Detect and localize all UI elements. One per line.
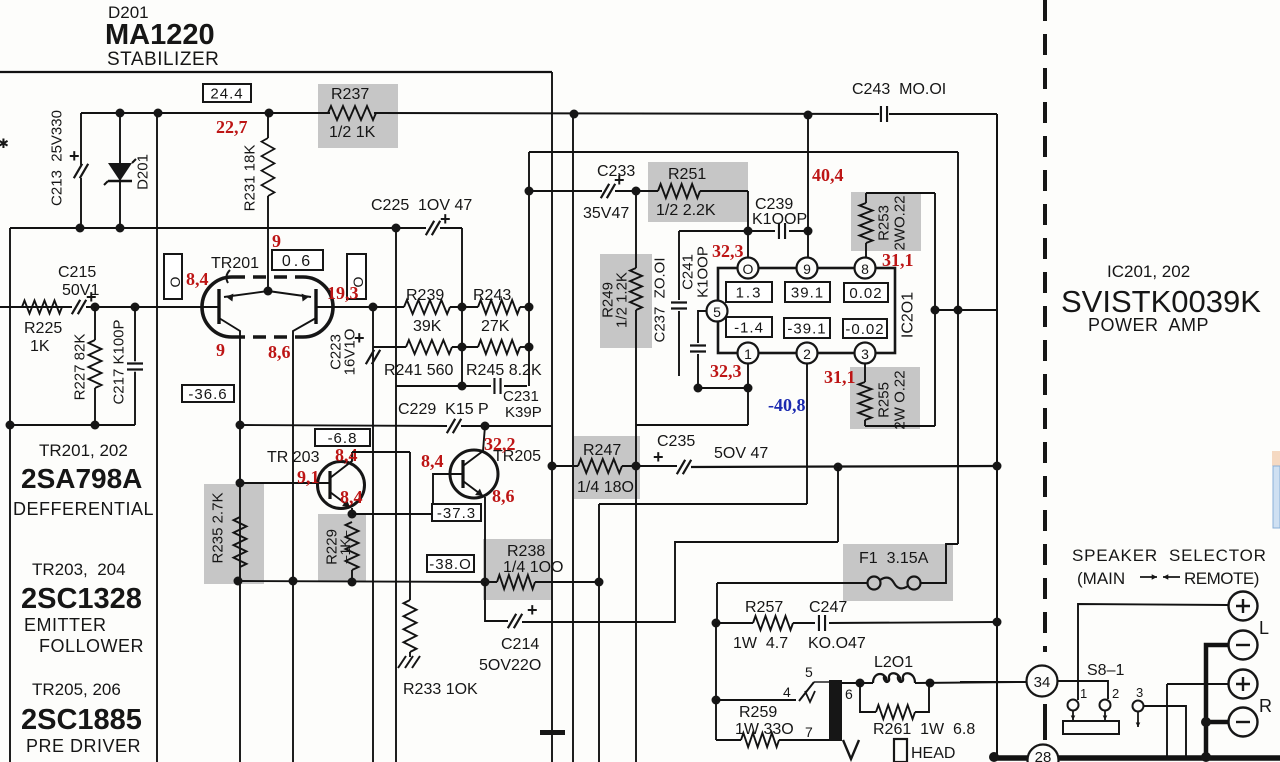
grey highlight behind resistor R255 [850, 367, 920, 429]
IC201 pin 3 circle [855, 343, 876, 364]
resistor R233 vertical x=410 with ground [404, 600, 417, 652]
wire x=748 from y=191 to pin 0 [747, 191, 749, 258]
junction dots y=582 [234, 577, 243, 586]
svg-text:40,4: 40,4 [812, 165, 844, 185]
svg-text:5: 5 [713, 304, 721, 320]
grey highlight behind resistor R235 [204, 484, 264, 584]
svg-text:1W 4.7: 1W 4.7 [733, 635, 788, 652]
svg-text:C225: C225 [371, 197, 409, 214]
wire x=529 from y=152 down to y=386 [528, 152, 530, 386]
TR201 right half: base bar, collector, emitter [314, 289, 317, 324]
svg-text:0.02: 0.02 [849, 285, 882, 302]
capacitor C237 horizontal plates [671, 300, 687, 310]
svg-text:R251: R251 [668, 166, 706, 183]
svg-text:-36.6: -36.6 [188, 386, 227, 403]
junction dots y=425 [6, 421, 15, 430]
junction dots on +B rail [116, 109, 125, 118]
wire x=716 down to R259 [715, 700, 717, 740]
svg-text:+: + [354, 328, 365, 348]
voltage box 1.3 inside IC [726, 282, 772, 302]
svg-text:SVISTK0039K: SVISTK0039K [1061, 284, 1261, 319]
svg-text:MA1220: MA1220 [105, 19, 215, 51]
wire x=808 pin9 riser [807, 115, 809, 258]
svg-text:K39P: K39P [505, 404, 542, 421]
switch contact 2 [1100, 700, 1111, 711]
resistor R227 82K vertical x=95 [94, 307, 96, 340]
svg-text:O: O [743, 261, 754, 277]
inductor L201 coil [873, 673, 915, 683]
svg-text:1/2 1K: 1/2 1K [329, 124, 376, 141]
wire vertical x=157 frame line [156, 113, 158, 762]
grey highlight behind fuse F1 [843, 544, 953, 601]
capacitor C247 [819, 615, 825, 631]
svg-text:SPEAKER SELECTOR: SPEAKER SELECTOR [1072, 546, 1267, 565]
svg-text:R247: R247 [583, 442, 621, 459]
voltage box -38.0 [427, 555, 474, 572]
svg-text:DEFFERENTIAL: DEFFERENTIAL [13, 499, 154, 519]
probe box O right [347, 254, 366, 299]
wire R253 top to x=935 [866, 192, 935, 194]
svg-text:-37.3: -37.3 [437, 505, 476, 522]
svg-text:-1.4: -1.4 [734, 319, 764, 336]
IC201 pin 1 circle [738, 343, 759, 364]
svg-text:R231 18K: R231 18K [242, 145, 259, 212]
resistor R249 vertical on x=634 [630, 268, 642, 310]
capacitor C241 in pin5 line [698, 311, 706, 343]
svg-text:C231: C231 [503, 388, 539, 405]
svg-text:2SC1328: 2SC1328 [21, 583, 142, 615]
svg-text:0.6: 0.6 [282, 253, 313, 270]
junction dot -R node [1201, 717, 1211, 727]
capacitor C213 vertical with wire x=81 [80, 113, 82, 165]
resistor R241 zigzag [406, 340, 452, 354]
svg-text:8,6: 8,6 [492, 486, 515, 506]
svg-text:K1OOP: K1OOP [752, 211, 807, 228]
svg-text:-6.8: -6.8 [328, 430, 358, 447]
svg-text:REMOTE): REMOTE) [1184, 569, 1259, 588]
wire TR201 right emitter down x=293 [292, 337, 294, 762]
grey highlight behind resistor R238 [483, 539, 552, 600]
junction dots input rail [91, 303, 100, 312]
svg-text:FOLLOWER: FOLLOWER [39, 636, 144, 656]
wire vertical x=10 frame line [9, 228, 11, 762]
svg-text:+: + [69, 146, 80, 166]
svg-text:R225: R225 [24, 320, 62, 337]
junction dot L201 left [856, 679, 865, 688]
svg-text:C229 K15 P: C229 K15 P [398, 401, 489, 418]
svg-text:C214: C214 [501, 636, 539, 653]
capacitor C229 slanted [447, 419, 461, 433]
svg-text:POWER AMP: POWER AMP [1088, 315, 1209, 335]
wire +B rail y=114 from x=81 to x=997 [81, 112, 330, 114]
transistor TR201 dual package dashed stadium [232, 275, 303, 279]
svg-text:+: + [440, 209, 451, 229]
svg-text:TR201: TR201 [211, 255, 259, 272]
resistor R229 vertical x=352 [346, 522, 359, 570]
voltage box 24.4 [203, 84, 251, 102]
svg-text:PRE DRIVER: PRE DRIVER [26, 736, 141, 756]
svg-text:C213 25V330: C213 25V330 [49, 110, 66, 206]
resistor R259 zigzag y=740 [716, 739, 741, 741]
capacitor C225 slanted on y=228 wire [426, 221, 440, 235]
resistor R243 zigzag y=307 [478, 300, 520, 314]
svg-text:+: + [614, 170, 625, 190]
resistor R239 zigzag y=307 [333, 306, 404, 308]
svg-text:24.4: 24.4 [210, 85, 243, 102]
TR203 base bar [328, 471, 331, 499]
svg-text:8,4: 8,4 [340, 487, 363, 507]
wire y=347 R241 R245 [373, 346, 406, 348]
capacitor C233 slanted [601, 184, 615, 198]
TR205 base bar [461, 460, 464, 488]
svg-text:L2O1: L2O1 [874, 654, 913, 671]
svg-text:2SA798A: 2SA798A [21, 463, 142, 494]
svg-text:IC201, 202: IC201, 202 [1107, 262, 1190, 281]
svg-text:1K: 1K [30, 338, 50, 355]
transformer pin 4-5 diagonal [799, 682, 814, 701]
svg-text:5OV22O: 5OV22O [479, 657, 541, 674]
svg-text:3: 3 [1136, 685, 1143, 700]
voltage box 0.02 inside IC [844, 283, 888, 302]
svg-text:4: 4 [783, 684, 791, 700]
svg-text:+: + [653, 447, 664, 467]
wire x=717 from fuse down to R257 node [716, 583, 718, 623]
wire y=228 rail from x=10 to x=462 [10, 227, 426, 229]
svg-text:39K: 39K [413, 318, 442, 335]
wire +R terminal to x=1167 [1167, 683, 1228, 685]
junction dots y=388 [694, 384, 703, 393]
resistor R245 zigzag [478, 340, 520, 354]
junction dots y=347 [458, 343, 467, 352]
junction dots y=231 [744, 227, 753, 236]
TR205 base wire to x=433 [433, 474, 463, 514]
node circle 28 [1028, 745, 1059, 762]
wire x=838 up to y=467 node [837, 467, 839, 542]
junction dot x=716 y=700 [712, 696, 721, 705]
svg-text:2WO.22: 2WO.22 [892, 195, 909, 250]
svg-text:R241 560: R241 560 [384, 362, 453, 379]
wire y=514 TR203 emitter to TR205 base link [352, 513, 433, 515]
svg-text:R235 2.7K: R235 2.7K [210, 493, 227, 564]
svg-text:9,1: 9,1 [297, 467, 320, 487]
voltage box 39.1 inside IC [785, 282, 830, 302]
thick bottom ground bar [993, 755, 1280, 761]
voltage box -37.3 [432, 504, 481, 521]
TR203 emitter with arrow [330, 492, 350, 507]
wire C239 rail y=231 [679, 230, 775, 232]
svg-text:R253: R253 [876, 205, 893, 241]
wire y=425 mid from x=240 to x=552 [240, 425, 447, 426]
junction dot x=636 y=191 [632, 187, 641, 196]
TR201 left half: base bar, collector, emitter [217, 289, 220, 324]
svg-text:-0.02: -0.02 [845, 321, 884, 338]
svg-text:C237 ZO.OI: C237 ZO.OI [652, 257, 669, 342]
svg-text:TR201, 202: TR201, 202 [39, 441, 128, 460]
wire transformer secondary to L201 [842, 682, 873, 684]
capacitor C215 slanted on input rail [72, 300, 86, 314]
svg-text:32,3: 32,3 [712, 241, 744, 261]
svg-text:19,3: 19,3 [327, 283, 359, 303]
svg-text:9: 9 [803, 261, 811, 277]
resistor R238 zigzag [497, 575, 535, 589]
svg-text:8,4: 8,4 [421, 451, 444, 471]
stray bar bottom middle [540, 730, 565, 735]
capacitor C223 on x=373 [366, 350, 380, 364]
svg-text:1/2 1.2K: 1/2 1.2K [614, 272, 631, 328]
wire vertical x=636 R249 line down to bottom [635, 191, 637, 268]
svg-text:-39.1: -39.1 [787, 320, 826, 337]
wire pin2 down x=807 to y=504 [806, 363, 808, 504]
wire y=425 lower left [10, 424, 135, 426]
wire y=483 TR201 emitter to TR203 base [240, 482, 330, 484]
svg-text:C215: C215 [58, 264, 96, 281]
switch contact 3 [1133, 701, 1144, 712]
svg-text:–1K–: –1K– [337, 530, 353, 563]
resistor R253 vertical [865, 193, 867, 203]
dashed divider line x=1045 [1043, 0, 1047, 652]
capacitor C239 [779, 223, 785, 239]
junction dots y=466 [548, 462, 557, 471]
junction dots ground bar [989, 752, 999, 762]
svg-text:31,1: 31,1 [824, 367, 856, 387]
junction dot TR203 emitter node [348, 510, 357, 519]
voltage box -36.6 [182, 385, 234, 402]
switch common bar [1063, 721, 1119, 734]
wire y=425 from x=634 to x=748 [636, 424, 748, 426]
svg-text:S8–1: S8–1 [1087, 662, 1124, 679]
svg-text:EMITTER: EMITTER [24, 615, 107, 635]
op-amp IC201 package box [718, 268, 895, 353]
IC201 pin 8 circle [855, 258, 876, 279]
wire vertical x=573 from +B rail down [572, 114, 574, 762]
transformer core black bar [829, 680, 842, 741]
IC201 pin 9 circle [797, 258, 818, 279]
svg-text:TR203, 204: TR203, 204 [32, 560, 126, 579]
wire y=191 R251 C233 rail [529, 190, 602, 192]
svg-text:5: 5 [805, 664, 813, 680]
svg-text:R: R [1259, 696, 1272, 716]
junction dots on y=228 rail [76, 224, 85, 233]
grey highlight behind resistor R237 [318, 84, 398, 148]
svg-text:1W 33O: 1W 33O [735, 721, 794, 738]
svg-text:R237: R237 [331, 86, 369, 103]
svg-text:STABILIZER: STABILIZER [107, 49, 219, 70]
svg-text:R257: R257 [745, 599, 783, 616]
resistor R235 vertical x=240 [234, 517, 247, 567]
grey highlight behind resistor R229 [318, 514, 366, 581]
grey highlight behind resistor R247 [574, 436, 640, 499]
TR201 internal node dot and collector feed [264, 287, 273, 296]
wire y=426 R255 bottom to x=935 [865, 425, 935, 427]
wire y=388 C241 to pin1 [698, 387, 748, 389]
wire y=152 from x=529 to x=958 [529, 151, 958, 153]
svg-text:2: 2 [803, 346, 811, 362]
junction dot x=935 y=310 [931, 306, 940, 315]
svg-text:5OV 47: 5OV 47 [714, 445, 768, 462]
wire vertical x=552 from top rail down [551, 72, 553, 762]
svg-text:9: 9 [216, 340, 225, 360]
grey highlight behind resistor R253 [851, 192, 921, 251]
resistor R247 zigzag [578, 459, 622, 473]
thick wire -R terminal [1206, 720, 1228, 725]
svg-text:TR 203: TR 203 [267, 449, 320, 466]
wire input rail y=307 from x=0 to TR201 [0, 306, 72, 308]
switch contact 1 [1068, 700, 1079, 711]
wire x=599 down from y=504 [598, 504, 600, 762]
grey highlight behind resistor R251 [648, 162, 748, 222]
resistor R225 zigzag [22, 301, 62, 314]
resistor R237 zigzag on +B rail [328, 106, 376, 120]
wire y=504 from x=599 to x=807 [599, 503, 807, 505]
svg-text:HEAD: HEAD [911, 745, 955, 762]
speaker terminal - L [1229, 631, 1258, 660]
wire y=700 to transformer pin 4 [716, 699, 796, 701]
svg-text:✱: ✱ [0, 136, 9, 151]
grey highlight behind resistor R249 [600, 254, 652, 348]
voltage box -0.02 inside IC [843, 319, 887, 338]
svg-text:6: 6 [845, 686, 853, 702]
wire vertical x=373 from y=307 down [372, 307, 374, 762]
wire pin1 down x=748 [747, 363, 749, 425]
wire y=310 to right bus [935, 309, 997, 311]
junction dot R257 node [712, 619, 721, 628]
voltage box -6.8 [315, 429, 370, 446]
svg-text:3: 3 [861, 346, 869, 362]
svg-text:R238: R238 [507, 543, 545, 560]
voltage box 0.6 [272, 250, 323, 270]
junction dots x=240 [236, 479, 245, 488]
svg-text:R239: R239 [406, 287, 444, 304]
svg-text:34: 34 [1034, 674, 1051, 691]
junction dot L201 right [926, 679, 935, 688]
svg-text:9: 9 [272, 231, 281, 251]
svg-text:R261 1W 6.8: R261 1W 6.8 [873, 721, 975, 738]
wire vertical x=997 right bus [996, 114, 998, 757]
zener diode D201 with wire x=120 [119, 113, 121, 228]
svg-text:1/2 2.2K: 1/2 2.2K [656, 202, 716, 219]
svg-text:F1 3.15A: F1 3.15A [859, 550, 929, 567]
thick wire -L terminal to ground bus [1206, 645, 1228, 757]
wire x=716 down to y=700 [715, 623, 717, 700]
speaker terminal + L [1229, 592, 1258, 621]
svg-text:TR205, 206: TR205, 206 [32, 680, 121, 699]
resistor R255 vertical below pin 3 [864, 363, 866, 382]
svg-text:8: 8 [861, 261, 869, 277]
svg-text:IC2O1: IC2O1 [900, 292, 917, 338]
right edge scrollbar artifact [1272, 451, 1280, 466]
resistor R251 zigzag y=191 [658, 184, 700, 198]
svg-text:2SC1885: 2SC1885 [21, 704, 142, 736]
wire y=386 C231 branch [396, 385, 491, 387]
svg-text:-40,8: -40,8 [768, 395, 806, 415]
probe box O left [164, 254, 182, 299]
wire x=935 down to y=426 [934, 193, 936, 426]
wire circle34 to switch contact 2 [1058, 681, 1108, 699]
svg-text:22,7: 22,7 [216, 117, 248, 137]
capacitor C243 on +B rail [881, 106, 887, 122]
svg-text:K1OOP: K1OOP [695, 246, 712, 298]
capacitor C217 vertical x=135 [134, 307, 136, 362]
svg-text:KO.O47: KO.O47 [808, 635, 866, 652]
svg-text:31,1: 31,1 [882, 250, 914, 270]
svg-text:8,4: 8,4 [335, 445, 358, 465]
IC201 pin 5 circle [707, 301, 728, 322]
svg-text:R245 8.2K: R245 8.2K [466, 362, 542, 379]
node circle 34 [960, 681, 1026, 683]
voltage box -1.4 inside IC [726, 317, 772, 337]
IC201 pin 0 circle [738, 258, 759, 279]
svg-text:R243: R243 [473, 287, 511, 304]
svg-text:1/4 18O: 1/4 18O [577, 479, 634, 496]
svg-text:1: 1 [1080, 686, 1087, 701]
resistor R231 vertical x=268 [267, 113, 269, 138]
svg-text:C217 K100P: C217 K100P [111, 319, 128, 404]
capacitor C214 slanted [508, 614, 522, 628]
svg-text:1/4 1OO: 1/4 1OO [503, 559, 563, 576]
svg-text:32,2: 32,2 [484, 434, 516, 454]
junction dot x=462 y=386 [458, 382, 467, 391]
junction dot x=485 y=426 [481, 422, 490, 431]
svg-text:8,4: 8,4 [186, 269, 209, 289]
resistor R257 zigzag y=623 [716, 622, 753, 624]
capacitor C235 slanted [677, 460, 691, 474]
svg-text:R227 82K: R227 82K [72, 334, 89, 401]
svg-text:27K: 27K [481, 318, 510, 335]
ground symbol below R233 [398, 656, 420, 668]
svg-text:R259: R259 [739, 704, 777, 721]
svg-text:28: 28 [1035, 749, 1052, 762]
transistor TR205 circle [450, 450, 498, 498]
TR205 collector up to C229 node [463, 426, 485, 466]
wire y=582 R238 rail [238, 581, 497, 582]
wire x=410 down to R233 [409, 452, 411, 600]
junction dot x=958 y=310 [954, 306, 963, 315]
svg-text:2W O.22: 2W O.22 [892, 370, 909, 429]
svg-text:2: 2 [1112, 686, 1119, 701]
svg-text:7: 7 [805, 724, 813, 740]
TR203 collector [330, 452, 352, 478]
voltage box -39.1 inside IC [784, 318, 830, 338]
svg-text:35V47: 35V47 [583, 205, 629, 222]
wire TR203 collector to R233 top [352, 451, 410, 453]
wire + L terminal to contact 1 [1078, 604, 1228, 700]
wire x=679 down to C237 [678, 231, 680, 300]
wire vertical x=396 from y=228 down [395, 228, 397, 762]
wire L201 right to circle 34 [915, 682, 1026, 683]
svg-text:1.3: 1.3 [736, 284, 763, 301]
svg-text:C243 MO.OI: C243 MO.OI [852, 81, 946, 98]
V arrow below transformer [843, 740, 859, 759]
wire x=462 from y=228 down to y=386 [461, 228, 463, 386]
svg-text:(MAIN: (MAIN [1077, 569, 1125, 588]
capacitor C231 [495, 378, 501, 394]
svg-text:R255: R255 [876, 382, 893, 418]
resistor R261 loop below L201 [860, 683, 876, 712]
speaker terminal - R [1229, 708, 1258, 737]
svg-text:1: 1 [744, 346, 752, 362]
junction dots y=307 [369, 303, 378, 312]
wire contact 3 right [1144, 706, 1186, 756]
IC201 pin 2 circle [797, 343, 818, 364]
wire x=1167 from +R terminal down [1166, 684, 1168, 756]
svg-text:39.1: 39.1 [791, 284, 824, 301]
svg-text:8,6: 8,6 [268, 342, 291, 362]
speaker terminal + R [1229, 670, 1258, 699]
junction dot x=529 y=191 [525, 187, 534, 196]
wire TR201 left emitter down x=240 [239, 337, 241, 762]
wire C214 branch [485, 582, 508, 621]
wire y=466 R247 C235 rail [552, 465, 578, 467]
